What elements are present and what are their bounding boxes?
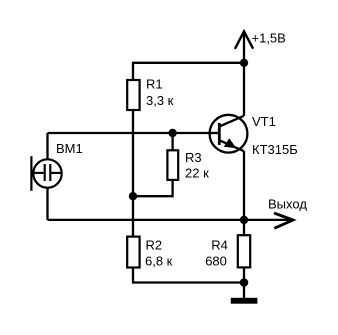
- output arrow chevron: [274, 213, 293, 228]
- wire output: [244, 219, 292, 221]
- svg-text:R4: R4: [211, 238, 228, 253]
- wire base from BM1 to VT1: [48, 132, 220, 134]
- svg-text:680: 680: [205, 253, 227, 268]
- wire power arrow down to node: [243, 31, 245, 63]
- wire BM1 top lead: [46, 133, 48, 159]
- wire emitter rail: [243, 151, 245, 220]
- wire left rail R1 to R2: [132, 110, 134, 236]
- svg-text:6,8 к: 6,8 к: [145, 253, 173, 268]
- node ground junction: [240, 278, 249, 287]
- wire R3 bottom to left rail: [133, 180, 173, 196]
- ground: [231, 298, 258, 304]
- resistor R4: [238, 235, 250, 267]
- svg-text:+1,5В: +1,5В: [252, 31, 286, 46]
- transistor VT1: [208, 115, 248, 153]
- resistor R1: [127, 80, 139, 110]
- wire BM1 bottom lead: [46, 188, 48, 220]
- svg-text:3,3 к: 3,3 к: [146, 93, 174, 108]
- resistor R3: [167, 150, 178, 180]
- wire R4 bottom lead: [243, 267, 245, 283]
- wire R4 top lead: [243, 220, 245, 235]
- svg-text:Выход: Выход: [268, 196, 307, 211]
- svg-text:VT1: VT1: [252, 114, 276, 129]
- microphone BM1: [31, 156, 61, 191]
- resistor R2: [127, 237, 139, 268]
- wire R1 top to power rail: [133, 63, 244, 80]
- svg-text:КТ315Б: КТ315Б: [252, 142, 298, 157]
- node output junction: [240, 216, 248, 224]
- wire ground lead: [243, 283, 245, 299]
- svg-text:BM1: BM1: [56, 141, 83, 156]
- wire R2 bottom to ground node: [133, 267, 244, 283]
- node R3 to base: [168, 129, 176, 137]
- svg-text:R3: R3: [185, 150, 202, 165]
- wire R3 top lead: [171, 133, 173, 150]
- node power junction: [240, 59, 248, 67]
- svg-text:22 к: 22 к: [185, 165, 209, 180]
- wire collector rail: [243, 63, 245, 116]
- svg-text:R1: R1: [146, 77, 163, 92]
- svg-text:R2: R2: [146, 238, 163, 253]
- wire bottom from BM1 to output node: [48, 219, 245, 221]
- power symbol +1,5V arrow: [235, 31, 253, 49]
- node R3 bottom junction: [129, 192, 137, 200]
